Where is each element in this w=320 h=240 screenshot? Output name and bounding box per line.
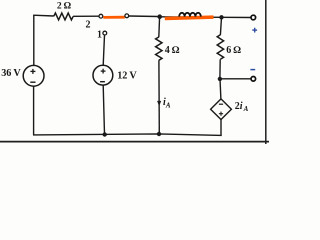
terminal b minus label (blue) [250, 69, 255, 71]
svg-text:2i: 2i [235, 101, 243, 112]
switch contact 2 (open circle) [99, 14, 103, 18]
wire: node B down to R3 [220, 17, 221, 35]
U1 plus sign [219, 112, 223, 116]
page rule: bottom border line [0, 141, 269, 143]
wire: node A to node B (under inductor) [160, 16, 222, 19]
V1 plus sign [30, 69, 35, 74]
inductor L1 coil [179, 13, 201, 17]
resistor R2 4ohm [156, 37, 162, 60]
page rule: right border line [265, 0, 267, 144]
voltage source V2 12V [93, 65, 113, 85]
terminal a (open circle) [251, 15, 256, 20]
V2 plus sign [101, 69, 106, 74]
label 1 terminal wire stub [103, 35, 104, 65]
node B junction dot [219, 15, 223, 19]
svg-text:2: 2 [86, 20, 91, 31]
svg-text:2 Ω: 2 Ω [57, 0, 72, 11]
wire: left vertical bottom [33, 86, 35, 135]
V2 minus sign [100, 81, 105, 83]
resistor R1 2ohm [54, 13, 73, 20]
U1 minus sign [219, 103, 223, 105]
V1 minus sign [30, 81, 35, 83]
switch contact pivot (open circle) [125, 14, 129, 18]
svg-text:1: 1 [97, 30, 102, 41]
current arrow iA (arrowhead) [157, 101, 161, 106]
wire: top left segment [33, 14, 54, 17]
wire: node C to terminal b [220, 78, 251, 80]
svg-text:12 V: 12 V [117, 70, 137, 81]
wire: R2 to bottom rail with current arrow [158, 60, 160, 134]
wire: R3 to node C [219, 59, 221, 79]
node C junction dot [218, 77, 222, 81]
resistor R3 6ohm [217, 35, 223, 59]
inductor wire highlight (orange) [165, 17, 214, 18]
wire: node C down to dependent source [219, 81, 222, 99]
wire: resistor to switch [73, 15, 99, 17]
svg-text:4 Ω: 4 Ω [165, 45, 180, 56]
wire: switch to node A [129, 15, 158, 18]
wire: bottom rail [33, 134, 222, 136]
wire: 12V source to bottom rail [103, 85, 104, 134]
terminal a plus label (blue) [252, 28, 257, 33]
wire: node B to terminal a [222, 16, 251, 18]
switch contact 1 (open circle) [103, 31, 107, 35]
wire: node A down to R2 [158, 17, 161, 37]
node A junction dot [157, 14, 162, 19]
dependent source U1 2iA (diamond) [211, 99, 232, 120]
svg-text:36 V: 36 V [1, 68, 21, 79]
wire: left vertical top (node to 36V source) [33, 15, 35, 65]
wire: dependent source to bottom rail [220, 120, 222, 136]
voltage source V1 36V [23, 65, 44, 86]
terminal b (open circle) [251, 77, 256, 82]
switch blade (orange highlighted) [103, 16, 125, 19]
junction dot bottom (R2 branch) [157, 132, 161, 136]
svg-text:6 Ω: 6 Ω [226, 45, 241, 56]
junction dot bottom (12V branch) [103, 132, 107, 136]
svg-text:A: A [165, 101, 171, 109]
svg-text:A: A [243, 105, 249, 113]
